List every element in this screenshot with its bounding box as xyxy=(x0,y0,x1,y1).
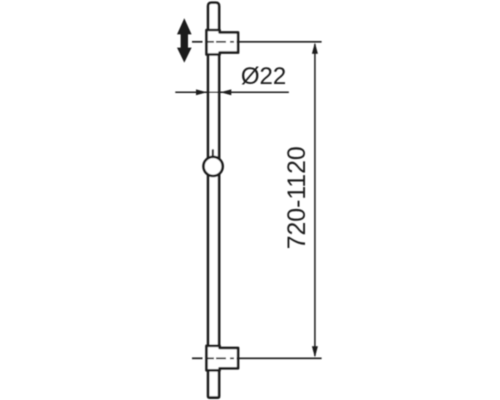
svg-text:720-1120: 720-1120 xyxy=(284,146,311,249)
svg-text:Ø22: Ø22 xyxy=(241,63,286,90)
